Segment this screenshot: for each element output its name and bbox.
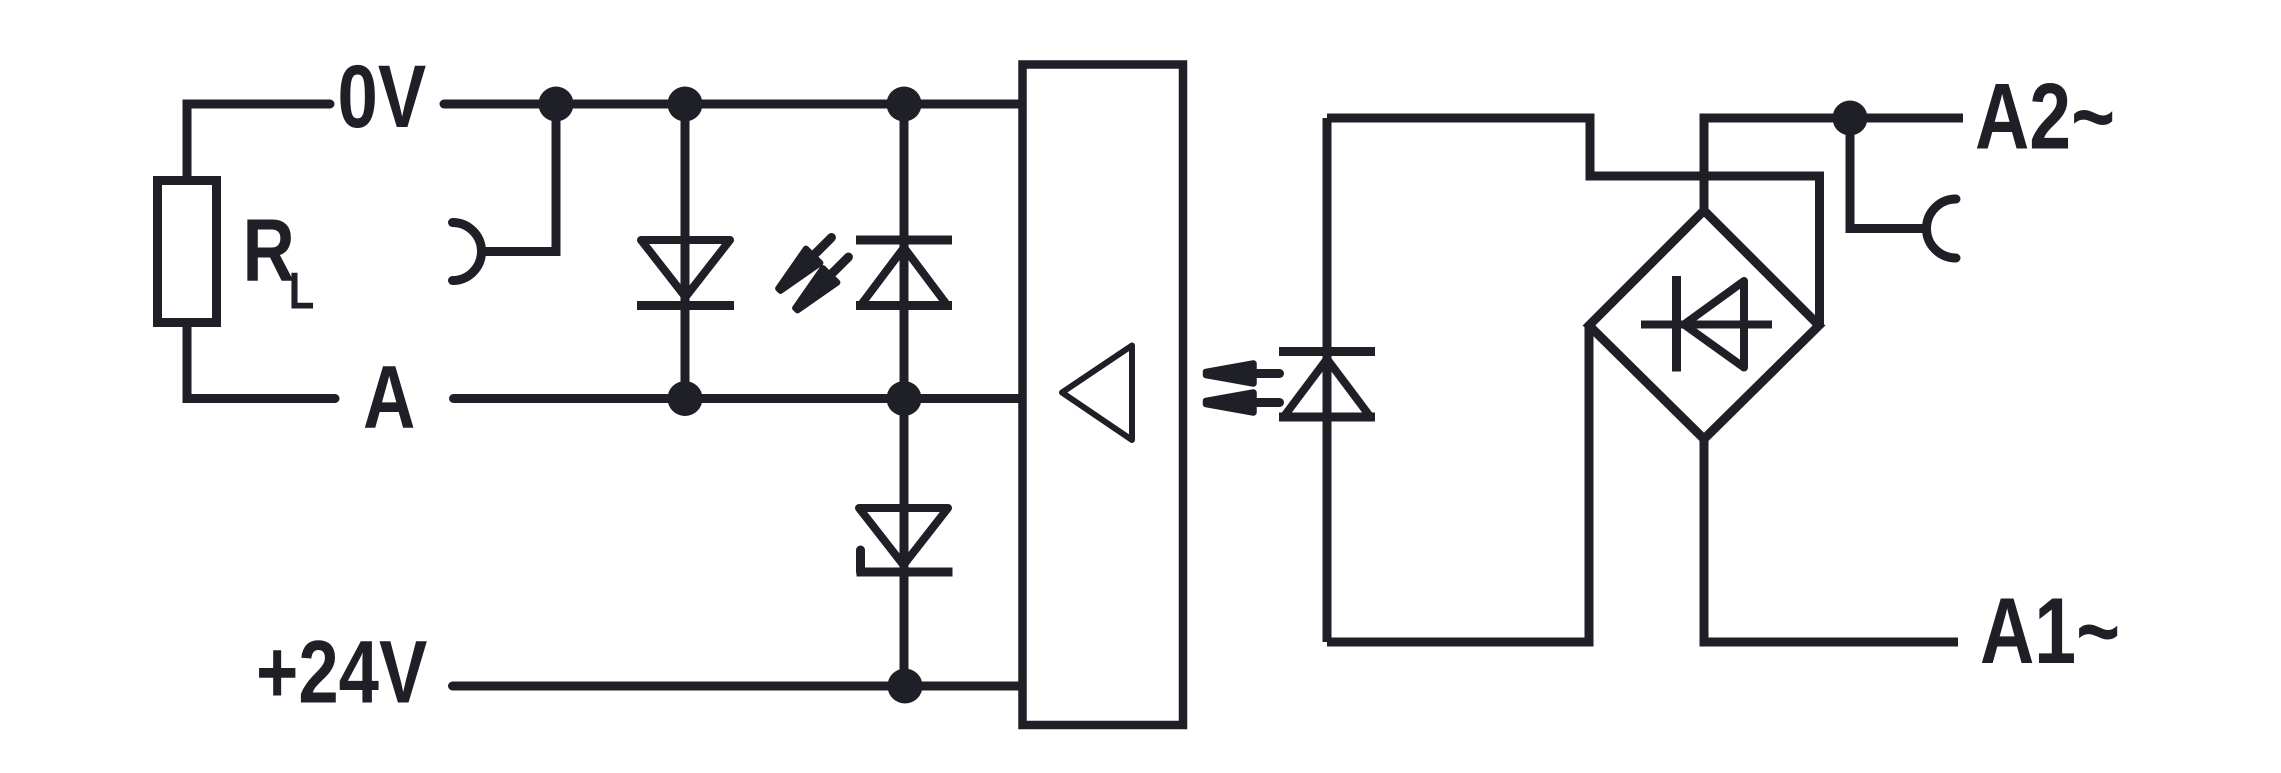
junction 0V/V1: [668, 87, 703, 122]
svg-text:A2~: A2~: [1975, 65, 2115, 170]
junction A2: [1833, 101, 1868, 136]
zener diode V2: [857, 508, 953, 572]
svg-text:R: R: [243, 201, 295, 301]
wire +24V rail: [453, 682, 1022, 691]
wire socket to 0V rail: [481, 104, 556, 252]
bridge diode: [1641, 276, 1772, 372]
amplifier box: [1023, 65, 1184, 726]
light emission arrow 2: [789, 250, 855, 316]
wire bridge to A1 terminal: [1704, 439, 1958, 642]
wire 0V rail right segment: [444, 100, 1021, 109]
svg-text:L: L: [289, 263, 315, 321]
wire branch LED1: [900, 104, 909, 399]
wire branch diode V1: [681, 104, 690, 399]
light input arrow 2: [1206, 393, 1280, 413]
connector socket output: [1927, 199, 1957, 258]
svg-text:+24V: +24V: [256, 622, 427, 722]
junction 0V/LED1: [887, 87, 922, 122]
light input arrow 1: [1206, 364, 1280, 384]
junction +24V/zener: [888, 669, 923, 704]
light emission arrow 1: [772, 230, 838, 296]
wire branch zener: [900, 399, 909, 687]
svg-text:A1~: A1~: [1980, 579, 2120, 684]
wire optocoupler cathode to bridge: [1327, 326, 1589, 643]
bridge rectifier: [1589, 211, 1819, 440]
wire A2 to socket: [1850, 118, 1927, 229]
wire bridge to A2 terminal: [1704, 118, 1963, 211]
optocoupler LED: [1279, 118, 1375, 642]
wire optocoupler anode to bridge: [1327, 118, 1820, 326]
connector socket input: [453, 223, 482, 281]
resistor RL: [158, 181, 217, 323]
svg-text:A: A: [363, 347, 415, 447]
wire 0V rail left segment: [187, 104, 330, 181]
wire resistor to A rail: [187, 323, 335, 399]
LED LED1 status: [856, 240, 952, 306]
diode V1: [637, 240, 734, 306]
junction A/V1: [668, 381, 703, 416]
svg-text:0V: 0V: [338, 47, 427, 147]
junction A/LED1: [887, 381, 922, 416]
amplifier symbol triangle: [1062, 346, 1132, 441]
junction socket/0V: [539, 87, 574, 122]
wire A rail right segment: [454, 394, 1022, 403]
